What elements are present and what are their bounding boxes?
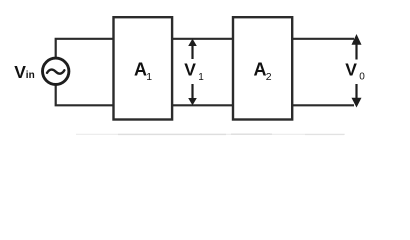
- node V1: upper shaft: [191, 45, 193, 60]
- node V0: lower shaft: [355, 84, 357, 99]
- svg-text:0: 0: [359, 72, 365, 83]
- svg-text:A: A: [134, 59, 147, 79]
- amplifier block A2: [233, 17, 292, 119]
- wire: top wire source riser to A1: [56, 39, 114, 58]
- svg-text:2: 2: [266, 71, 272, 83]
- svg-text:A: A: [254, 59, 267, 79]
- source Vin: circle: [43, 58, 69, 84]
- amplifier block A1: [114, 17, 173, 119]
- node V0: down arrowhead: [352, 98, 362, 108]
- wire: bottom wire source riser to A1: [56, 85, 114, 106]
- svg-text:1: 1: [146, 71, 152, 83]
- wire: top output wire from A2: [292, 38, 354, 40]
- cropped caption remnant: [76, 133, 345, 135]
- wire: bottom output wire from A2: [292, 104, 354, 106]
- wire: bottom wire A1 to A2: [172, 104, 233, 106]
- svg-text:V: V: [184, 60, 196, 80]
- node V1: up arrowhead: [188, 39, 197, 46]
- svg-text:V: V: [345, 60, 357, 80]
- svg-text:in: in: [26, 70, 35, 81]
- svg-text:V: V: [14, 62, 26, 82]
- node V1: down arrowhead: [188, 98, 197, 105]
- svg-text:1: 1: [198, 72, 204, 83]
- source Vin: sine symbol: [47, 70, 64, 74]
- wire: top wire A1 to A2: [172, 38, 233, 40]
- node V0: upper shaft: [355, 44, 357, 60]
- node V1: lower shaft: [191, 84, 193, 99]
- node V0: up arrowhead: [352, 34, 362, 45]
